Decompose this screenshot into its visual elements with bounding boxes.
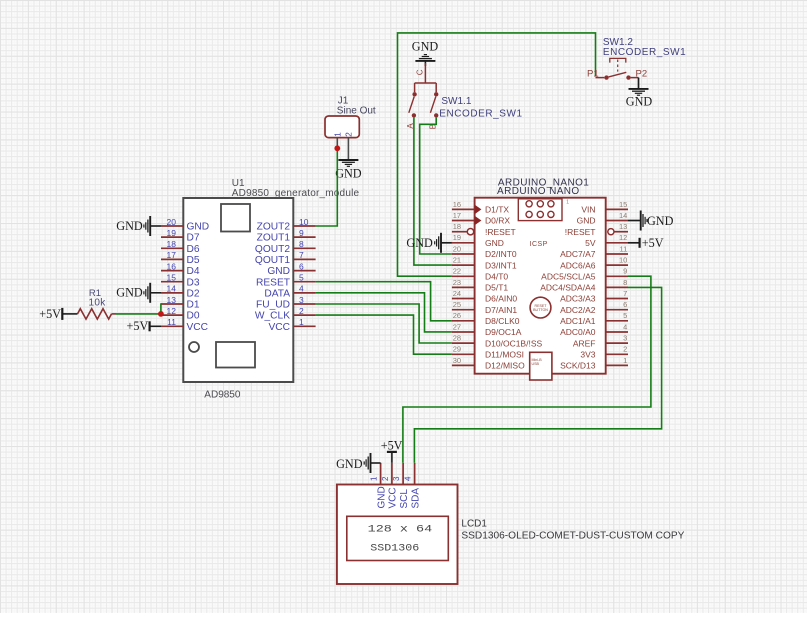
svg-text:11: 11 xyxy=(620,244,628,253)
svg-text:17: 17 xyxy=(453,211,461,220)
svg-text:D8/CLK0: D8/CLK0 xyxy=(485,316,520,326)
reset button circle xyxy=(530,297,551,318)
svg-text:ADC5/SCL/A5: ADC5/SCL/A5 xyxy=(541,272,596,282)
svg-text:Sine Out: Sine Out xyxy=(337,106,376,117)
svg-text:D1/TX: D1/TX xyxy=(485,205,509,215)
U1 left pin 17 D5 xyxy=(161,250,200,266)
LCD pin 3 SCL xyxy=(392,463,410,509)
resistor R1 10k xyxy=(78,288,117,319)
microcontroller ARDUINO_NANO1 body xyxy=(475,177,606,373)
wire U1 W_CLK to D11/MOSI xyxy=(316,315,452,354)
svg-text:GND: GND xyxy=(577,216,596,226)
svg-text:10: 10 xyxy=(299,217,309,227)
svg-text:10k: 10k xyxy=(88,297,106,308)
U1 right pin 6 GND xyxy=(267,261,315,277)
Arduino right pin 10 ADC6/A6 xyxy=(560,256,628,271)
svg-text:1: 1 xyxy=(299,317,304,327)
svg-text:4: 4 xyxy=(404,476,413,481)
svg-text:D9/OC1A: D9/OC1A xyxy=(485,327,522,337)
svg-text:D2: D2 xyxy=(187,289,200,300)
svg-text:19: 19 xyxy=(453,233,461,242)
svg-text:W_CLK: W_CLK xyxy=(255,311,290,322)
svg-text:3: 3 xyxy=(392,476,401,481)
Arduino right pin 13 !RESET xyxy=(565,222,628,237)
wire SW1.1 B to D2/INT0 xyxy=(420,118,452,254)
U1 right pin 1 VCC xyxy=(268,317,315,333)
svg-text:GND: GND xyxy=(485,238,504,248)
svg-text:ADC6/A6: ADC6/A6 xyxy=(560,260,596,270)
U1 left pin 16 D4 xyxy=(161,261,200,277)
svg-text:5: 5 xyxy=(299,273,304,283)
svg-text:D7/AIN1: D7/AIN1 xyxy=(485,305,517,315)
U1 left pin 20 GND xyxy=(161,217,209,233)
switch SW1.2 ENCODER_SW1 xyxy=(587,37,686,80)
U1 right pin 8 QOUT2 xyxy=(255,239,316,255)
ground GND below SW1.2 P2 xyxy=(626,78,653,109)
svg-text:GND: GND xyxy=(412,40,439,54)
svg-text:USB: USB xyxy=(532,362,540,366)
svg-text:D10/OC1B/!SS: D10/OC1B/!SS xyxy=(485,338,542,348)
svg-text:1: 1 xyxy=(623,356,627,365)
Arduino left pin 20 D2/INT0 xyxy=(452,244,517,259)
svg-text:D12/MISO: D12/MISO xyxy=(485,361,525,371)
power +5V at U1 pin11 xyxy=(127,319,161,333)
svg-text:ADC1/A1: ADC1/A1 xyxy=(560,316,596,326)
svg-text:ZOUT2: ZOUT2 xyxy=(257,222,291,233)
wire U1 FU_UD to D10 xyxy=(316,304,452,343)
svg-text:7: 7 xyxy=(299,250,304,260)
svg-text:+5V: +5V xyxy=(642,236,664,250)
svg-text:2: 2 xyxy=(381,476,390,481)
Arduino left pin 30 D12/MISO xyxy=(452,356,525,371)
svg-text:15: 15 xyxy=(167,273,177,283)
svg-text:14: 14 xyxy=(619,211,627,220)
svg-text:2: 2 xyxy=(299,306,304,316)
Arduino left pin 27 D9/OC1A xyxy=(452,322,522,337)
svg-text:5V: 5V xyxy=(585,238,596,248)
svg-text:20: 20 xyxy=(167,217,177,227)
wire ZOUT2 to J1 xyxy=(316,148,338,226)
Arduino right pin 9 ADC5/SCL/A5 xyxy=(541,267,628,282)
svg-text:2: 2 xyxy=(344,132,354,137)
svg-text:7: 7 xyxy=(623,289,627,298)
svg-text:26: 26 xyxy=(453,311,461,320)
svg-text:FU_UD: FU_UD xyxy=(256,300,290,311)
svg-text:SSD1306-OLED-COMET-DUST-CUSTOM: SSD1306-OLED-COMET-DUST-CUSTOM COPY xyxy=(461,530,684,541)
svg-text:18: 18 xyxy=(453,222,461,231)
wire U1 RESET to D8/CLK0 xyxy=(316,282,452,321)
svg-text:D5/T1: D5/T1 xyxy=(485,283,508,293)
U1 right pin 3 FU_UD xyxy=(256,295,316,311)
mini-B USB box xyxy=(530,352,552,380)
Arduino right pin 3 AREF xyxy=(573,334,628,349)
svg-text:D7: D7 xyxy=(187,233,200,244)
svg-text:GND: GND xyxy=(647,214,674,228)
svg-text:17: 17 xyxy=(167,250,177,260)
svg-text:18: 18 xyxy=(167,239,177,249)
svg-text:8: 8 xyxy=(623,278,627,287)
svg-text:10: 10 xyxy=(619,256,627,265)
svg-text:D3/INT1: D3/INT1 xyxy=(485,260,517,270)
ground GND at U1 pin20 xyxy=(116,216,161,236)
Arduino right pin 2 3V3 xyxy=(580,345,628,360)
svg-text:VCC: VCC xyxy=(187,322,209,333)
svg-text:SSD1306: SSD1306 xyxy=(370,544,419,555)
LCD pin 4 SDA xyxy=(404,463,422,509)
svg-text:GND: GND xyxy=(116,286,143,300)
svg-text:LCD1: LCD1 xyxy=(461,519,487,530)
ground GND at Arduino pin14 xyxy=(628,211,674,231)
svg-text:19: 19 xyxy=(167,228,177,238)
svg-text:4: 4 xyxy=(623,322,627,331)
svg-text:16: 16 xyxy=(453,200,461,209)
svg-text:6: 6 xyxy=(299,261,304,271)
svg-text:6: 6 xyxy=(623,300,627,309)
svg-text:22: 22 xyxy=(453,267,461,276)
svg-text:21: 21 xyxy=(453,256,461,265)
op-amp U1 AD9850 generator module body xyxy=(183,178,359,400)
svg-text:12: 12 xyxy=(619,233,627,242)
svg-text:15: 15 xyxy=(619,200,627,209)
svg-text:+5V: +5V xyxy=(127,319,149,333)
wire ADC4/SDA to LCD SDA xyxy=(414,287,661,462)
svg-text:+5V: +5V xyxy=(39,307,61,321)
wire R1 to U1 D0 xyxy=(116,313,161,315)
Arduino left pin 28 D10/OC1B/!SS xyxy=(452,334,543,349)
svg-text:3: 3 xyxy=(623,334,627,343)
U1 right pin 7 QOUT1 xyxy=(255,250,316,266)
ground GND at LCD pin1 xyxy=(336,453,381,473)
ground GND at U1 pin14 xyxy=(116,283,161,303)
svg-text:ENCODER_SW1: ENCODER_SW1 xyxy=(439,108,522,119)
svg-text:GND: GND xyxy=(335,167,362,181)
ground GND below J1 pin2 xyxy=(335,160,362,181)
svg-text:ENCODER_SW1: ENCODER_SW1 xyxy=(603,47,686,58)
svg-text:VIN: VIN xyxy=(581,205,595,215)
svg-text:ADC7/A7: ADC7/A7 xyxy=(560,249,596,259)
svg-text:13: 13 xyxy=(619,222,627,231)
node junction dot at J1 pin1 xyxy=(334,145,340,151)
svg-text:3V3: 3V3 xyxy=(580,350,595,360)
svg-text:SCK/D13: SCK/D13 xyxy=(560,361,596,371)
svg-text:RESET: RESET xyxy=(256,277,290,288)
svg-text:12: 12 xyxy=(167,306,177,316)
svg-text:3: 3 xyxy=(299,295,304,305)
svg-text:ADC2/A2: ADC2/A2 xyxy=(560,305,596,315)
svg-text:ZOUT1: ZOUT1 xyxy=(257,233,291,244)
svg-text:1: 1 xyxy=(332,132,342,137)
Arduino left pin 22 D4/T0 xyxy=(452,267,509,282)
svg-text:C: C xyxy=(416,69,425,75)
connector J1 Sine Out xyxy=(325,95,376,137)
svg-text:11: 11 xyxy=(167,317,176,327)
svg-text:24: 24 xyxy=(453,289,461,298)
svg-text:SW1.1: SW1.1 xyxy=(441,96,471,107)
Arduino right pin 11 ADC7/A7 xyxy=(560,244,628,259)
svg-text:D6/AIN0: D6/AIN0 xyxy=(485,294,517,304)
svg-text:AD9850: AD9850 xyxy=(204,389,241,400)
svg-text:29: 29 xyxy=(453,345,461,354)
svg-text:D3: D3 xyxy=(187,277,200,288)
svg-text:VCC: VCC xyxy=(268,322,290,333)
wire ADC5/SCL to LCD SCL xyxy=(403,276,651,463)
Arduino left pin 19 GND xyxy=(452,233,504,248)
J1 pin 1 stub xyxy=(336,138,338,149)
svg-text:GND: GND xyxy=(116,219,143,233)
svg-text:QOUT2: QOUT2 xyxy=(255,244,290,255)
Arduino left pin 29 D11/MOSI xyxy=(452,345,524,360)
ground GND above SW1.1 xyxy=(412,40,439,66)
svg-text:9: 9 xyxy=(623,267,627,276)
U1 left pin 12 D0 xyxy=(161,306,200,322)
svg-text:D11/MOSI: D11/MOSI xyxy=(485,350,524,360)
svg-text:SCL: SCL xyxy=(399,489,410,509)
Arduino right pin 4 ADC0/A0 xyxy=(560,322,628,337)
svg-text:D0/RX: D0/RX xyxy=(485,216,510,226)
Arduino right pin 15 VIN xyxy=(581,200,628,215)
svg-text:VCC: VCC xyxy=(388,487,399,508)
svg-text:+5V: +5V xyxy=(381,438,403,452)
svg-text:GND: GND xyxy=(187,222,210,233)
U1 left pin 14 D2 xyxy=(161,284,200,300)
svg-text:D6: D6 xyxy=(187,244,200,255)
U1 left pin 11 VCC xyxy=(161,317,208,333)
U1 left pin 19 D7 xyxy=(161,228,200,244)
wire SW1.1 A to D3/INT1 xyxy=(414,118,452,266)
Arduino right pin 7 ADC3/A3 xyxy=(560,289,628,304)
wire junction to U1 D1 xyxy=(160,304,163,314)
display LCD1 SSD1306 body xyxy=(337,485,685,585)
Arduino right pin 8 ADC4/SDA/A4 xyxy=(540,278,628,293)
Arduino left pin 26 D8/CLK0 xyxy=(452,311,520,326)
svg-text:1: 1 xyxy=(566,200,569,206)
svg-text:GND: GND xyxy=(406,236,433,250)
Arduino right pin 6 ADC2/A2 xyxy=(560,300,628,315)
svg-text:!RESET: !RESET xyxy=(565,227,596,237)
Arduino right pin 1 SCK/D13 xyxy=(560,356,628,371)
Arduino left pin 21 D3/INT1 xyxy=(452,256,517,271)
Arduino right pin 14 GND xyxy=(577,211,628,226)
Arduino right pin 5 ADC1/A1 xyxy=(560,311,628,326)
wire SW1.2 P1 to D4/T0 xyxy=(398,33,596,276)
U1 left pin 13 D1 xyxy=(161,295,200,311)
svg-text:8: 8 xyxy=(299,239,304,249)
Arduino left pin 17 D0/RX xyxy=(452,211,510,226)
svg-text:ICSP: ICSP xyxy=(530,241,548,248)
ground GND at Arduino pin19 xyxy=(406,233,452,253)
Arduino left pin 25 D7/AIN1 xyxy=(452,300,517,315)
svg-text:D5: D5 xyxy=(187,255,200,266)
J1 pin 2 stub xyxy=(347,138,349,160)
svg-text:AREF: AREF xyxy=(573,338,596,348)
Arduino left pin 24 D6/AIN0 xyxy=(452,289,517,304)
svg-text:GND: GND xyxy=(626,95,653,109)
svg-text:4: 4 xyxy=(299,284,304,294)
node junction dot at D0 xyxy=(158,311,164,317)
svg-text:9: 9 xyxy=(299,228,304,238)
svg-text:QOUT1: QOUT1 xyxy=(255,255,290,266)
U1 left pin 15 D3 xyxy=(161,273,200,289)
svg-text:SDA: SDA xyxy=(410,488,421,509)
svg-text:28: 28 xyxy=(453,334,461,343)
svg-text:2: 2 xyxy=(623,345,627,354)
U1 right pin 4 DATA xyxy=(264,284,315,300)
Arduino left pin 16 D1/TX xyxy=(452,200,510,215)
LCD pin 2 VCC xyxy=(381,463,399,509)
svg-text:D0: D0 xyxy=(187,311,200,322)
switch SW1.1 ENCODER_SW1 xyxy=(406,63,523,129)
Arduino left pin 18 !RESET xyxy=(452,222,516,237)
svg-text:ADC3/A3: ADC3/A3 xyxy=(560,294,596,304)
Arduino right pin 12 5V xyxy=(585,233,628,248)
U1 right pin 5 RESET xyxy=(256,273,316,289)
svg-text:ADC4/SDA/A4: ADC4/SDA/A4 xyxy=(540,283,596,293)
svg-text:DATA: DATA xyxy=(264,289,290,300)
power +5V at R1 xyxy=(39,307,77,321)
svg-text:25: 25 xyxy=(453,300,461,309)
U1 left pin 18 D6 xyxy=(161,239,200,255)
svg-text:D4: D4 xyxy=(187,266,200,277)
svg-text:ARDUINO NANO: ARDUINO NANO xyxy=(497,186,580,197)
svg-text:13: 13 xyxy=(167,295,177,305)
svg-text:BUTTON: BUTTON xyxy=(533,308,548,312)
svg-text:14: 14 xyxy=(167,284,177,294)
svg-text:1: 1 xyxy=(370,476,379,481)
svg-text:128 x 64: 128 x 64 xyxy=(368,524,433,535)
svg-text:!RESET: !RESET xyxy=(485,227,516,237)
svg-text:30: 30 xyxy=(453,356,461,365)
svg-text:5: 5 xyxy=(623,311,627,320)
svg-text:AD9850_generator_module: AD9850_generator_module xyxy=(232,188,360,199)
wire U1 DATA to D9/OC1A xyxy=(316,293,452,332)
power +5V at Arduino pin12 xyxy=(628,236,664,250)
svg-text:GND: GND xyxy=(267,266,290,277)
LCD pin 1 GND xyxy=(370,463,388,509)
U1 right pin 10 ZOUT2 xyxy=(257,217,316,233)
svg-text:D2/INT0: D2/INT0 xyxy=(485,249,517,259)
svg-text:D4/T0: D4/T0 xyxy=(485,272,508,282)
ICSP header xyxy=(518,199,569,248)
U1 right pin 9 ZOUT1 xyxy=(257,228,316,244)
svg-text:23: 23 xyxy=(453,278,461,287)
power +5V at LCD pin2 xyxy=(381,438,403,462)
svg-text:D1: D1 xyxy=(187,300,200,311)
svg-text:16: 16 xyxy=(167,261,177,271)
U1 right pin 2 W_CLK xyxy=(255,306,316,322)
svg-text:ADC0/A0: ADC0/A0 xyxy=(560,327,596,337)
svg-text:20: 20 xyxy=(453,244,461,253)
svg-text:GND: GND xyxy=(336,457,363,471)
Arduino left pin 23 D5/T1 xyxy=(452,278,509,293)
svg-text:GND: GND xyxy=(376,486,387,508)
svg-text:27: 27 xyxy=(453,322,461,331)
